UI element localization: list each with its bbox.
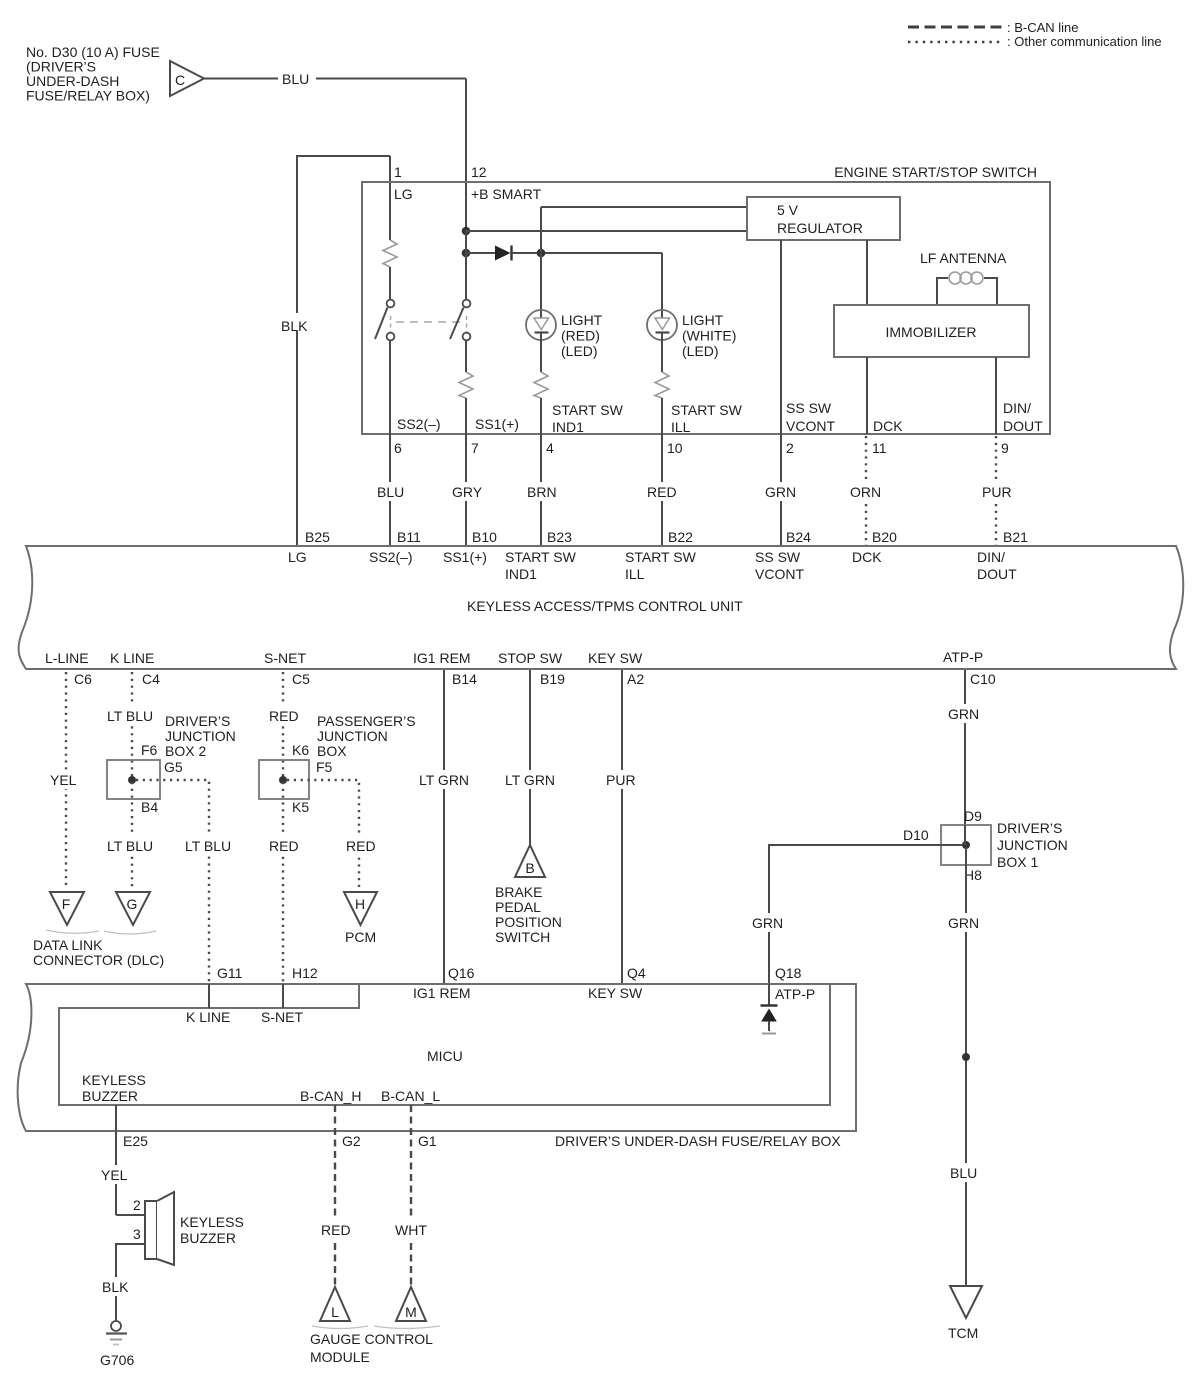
terminal G11 xyxy=(217,965,243,981)
svg-text:L-LINE: L-LINE xyxy=(45,650,89,666)
svg-text:C10: C10 xyxy=(970,671,996,687)
passenger junction box terminal F5 xyxy=(316,759,333,775)
svg-text:BRAKE: BRAKE xyxy=(495,884,542,900)
wire A2 PUR to Q4 xyxy=(602,670,640,984)
svg-text:IND1: IND1 xyxy=(552,419,584,435)
pin number 11 xyxy=(872,440,887,456)
svg-text:BUZZER: BUZZER xyxy=(180,1230,236,1246)
svg-text:DCK: DCK xyxy=(873,418,903,434)
legend other communication line sample xyxy=(908,34,1162,49)
svg-text:2: 2 xyxy=(786,440,794,456)
svg-text:DIN/: DIN/ xyxy=(977,549,1005,565)
svg-text:(RED): (RED) xyxy=(561,328,600,344)
svg-text:G: G xyxy=(127,896,138,912)
wire regulator to SS SW VCONT pin 2 xyxy=(780,240,782,434)
svg-text:DATA LINK: DATA LINK xyxy=(33,937,103,953)
resistor below LED white xyxy=(655,372,669,434)
svg-text:11: 11 xyxy=(872,440,887,456)
diode D1 xyxy=(466,246,662,261)
passenger's junction box label xyxy=(317,713,416,759)
terminal A2 xyxy=(627,671,644,687)
svg-text:9: 9 xyxy=(1001,440,1009,456)
svg-text:B: B xyxy=(525,860,534,876)
svg-text:JUNCTION: JUNCTION xyxy=(317,728,388,744)
switch box pin name SS1(+) xyxy=(475,416,519,432)
svg-text:DOUT: DOUT xyxy=(977,566,1017,582)
switch SS2 contacts and blade xyxy=(375,300,394,434)
svg-text:START SW: START SW xyxy=(671,402,743,418)
terminal B21 xyxy=(1003,529,1028,545)
fuse box pin name KEY SW xyxy=(588,985,643,1001)
svg-text:ILL: ILL xyxy=(625,566,645,582)
svg-text:KEYLESS: KEYLESS xyxy=(82,1072,146,1088)
svg-text:F5: F5 xyxy=(316,759,333,775)
pin number 7 xyxy=(471,440,479,456)
pin number 4 xyxy=(546,440,554,456)
svg-text:MICU: MICU xyxy=(427,1048,463,1064)
svg-text:K5: K5 xyxy=(292,799,309,815)
svg-text:START SW: START SW xyxy=(625,549,697,565)
terminal G1 xyxy=(418,1133,437,1149)
svg-text:2: 2 xyxy=(133,1197,141,1213)
svg-text:B22: B22 xyxy=(668,529,693,545)
band pin name DIN/DOUT xyxy=(977,549,1017,582)
fuse box pin name IG1 REM xyxy=(413,985,471,1001)
wire pin2 to B24 GRN xyxy=(761,434,801,546)
driver's junction box 2 xyxy=(107,760,160,799)
driver's junction box 1 label xyxy=(997,820,1068,870)
resistor in SS1 branch xyxy=(459,372,473,434)
switch box pin name START SW IND1 xyxy=(552,402,624,435)
svg-text:LT GRN: LT GRN xyxy=(505,772,555,788)
svg-text:Q18: Q18 xyxy=(775,965,802,981)
svg-text:DIN/: DIN/ xyxy=(1003,400,1031,416)
junction box 2 terminal F6 xyxy=(141,742,158,758)
wire LED white branch xyxy=(661,253,663,311)
MICU pin name B-CAN_L xyxy=(381,1088,440,1104)
svg-text:STOP SW: STOP SW xyxy=(498,650,563,666)
terminal B25 xyxy=(305,529,330,545)
svg-text:K LINE: K LINE xyxy=(110,650,154,666)
connector F triangle xyxy=(50,892,84,925)
band pin name DCK xyxy=(852,549,882,565)
svg-text:L: L xyxy=(331,1304,339,1320)
band pin name START SW ILL xyxy=(625,549,697,582)
svg-text:LT BLU: LT BLU xyxy=(107,838,153,854)
node +B SMART upper junction xyxy=(462,227,747,236)
svg-text:BLK: BLK xyxy=(102,1279,129,1295)
svg-text:LIGHT: LIGHT xyxy=(682,312,724,328)
svg-text:JUNCTION: JUNCTION xyxy=(165,728,236,744)
diode D2 ATP-P xyxy=(761,984,778,1034)
wire pin10 to B22 RED xyxy=(643,434,681,546)
wire pin11 to B20 ORN dotted xyxy=(846,436,886,546)
svg-text:G2: G2 xyxy=(342,1133,361,1149)
svg-text:G11: G11 xyxy=(217,965,243,981)
svg-text:BLU: BLU xyxy=(282,71,309,87)
band pin name KEY SW xyxy=(588,650,643,666)
LF antenna L1 xyxy=(920,250,1007,305)
wire buzzer pin 3 BLK to ground xyxy=(98,1244,145,1321)
engine start/stop switch box U1 xyxy=(362,164,1050,434)
wire B19 LT GRN to brake switch xyxy=(501,670,559,847)
svg-text:VCONT: VCONT xyxy=(755,566,804,582)
switch mechanical link dashed xyxy=(391,316,467,334)
wire E25 YEL to buzzer pin 2 xyxy=(97,1105,145,1215)
svg-text:G1: G1 xyxy=(418,1133,437,1149)
svg-text:RED: RED xyxy=(321,1222,351,1238)
LED white label xyxy=(682,312,736,359)
terminal B14 xyxy=(452,671,477,687)
svg-text:: B-CAN line: : B-CAN line xyxy=(1007,20,1079,35)
svg-text:(WHITE): (WHITE) xyxy=(682,328,736,344)
svg-text:GRN: GRN xyxy=(752,915,783,931)
svg-text:START SW: START SW xyxy=(505,549,577,565)
svg-text:IND1: IND1 xyxy=(505,566,537,582)
terminal E25 xyxy=(123,1133,148,1149)
wire pin4 to B23 BRN xyxy=(523,434,561,546)
svg-text:12: 12 xyxy=(471,164,487,180)
svg-text:B23: B23 xyxy=(547,529,572,545)
wire C5 RED dotted to passenger junction box xyxy=(265,672,303,778)
svg-text:DRIVER’S: DRIVER’S xyxy=(997,820,1062,836)
MICU box xyxy=(59,984,830,1105)
terminal Q4 xyxy=(627,965,646,981)
svg-text:GRN: GRN xyxy=(765,484,796,500)
junction box 1 terminal D10 xyxy=(903,827,929,843)
keyless access TPMS control unit band xyxy=(19,546,1184,669)
junction box 2 terminal G5 xyxy=(164,759,183,775)
svg-text:(LED): (LED) xyxy=(561,343,598,359)
svg-text:B24: B24 xyxy=(786,529,811,545)
svg-text:IMMOBILIZER: IMMOBILIZER xyxy=(885,324,976,340)
svg-text:Q16: Q16 xyxy=(448,965,475,981)
svg-text:F6: F6 xyxy=(141,742,158,758)
svg-text:SS SW: SS SW xyxy=(786,400,832,416)
svg-text:B19: B19 xyxy=(540,671,565,687)
pin number 2 xyxy=(786,440,794,456)
driver's under-dash fuse/relay box label xyxy=(555,1133,841,1149)
svg-text:SWITCH: SWITCH xyxy=(495,929,550,945)
band pin name L-LINE xyxy=(45,650,89,666)
svg-text:C: C xyxy=(175,72,185,88)
gauge control module label xyxy=(310,1331,433,1365)
wire H8 GRN BLU to TCM xyxy=(944,847,984,1286)
svg-text:B20: B20 xyxy=(872,529,897,545)
wire C4 LT BLU dotted to junction box xyxy=(103,672,161,778)
connector M triangle xyxy=(396,1287,426,1321)
svg-text:B21: B21 xyxy=(1003,529,1028,545)
fuse box pin name ATP-P xyxy=(775,986,815,1002)
junction box 1 terminal D9 xyxy=(964,808,982,824)
svg-text:D9: D9 xyxy=(964,808,982,824)
svg-text:10: 10 xyxy=(667,440,683,456)
wire pin9 to B21 PUR dotted xyxy=(978,436,1016,546)
switch box pin name DCK xyxy=(873,418,903,434)
svg-text:ATP-P: ATP-P xyxy=(775,986,815,1002)
svg-text:DRIVER’S: DRIVER’S xyxy=(165,713,230,729)
connector C triangle xyxy=(170,61,204,96)
svg-text:GRN: GRN xyxy=(948,915,979,931)
svg-text:G5: G5 xyxy=(164,759,183,775)
svg-text:5 V: 5 V xyxy=(777,202,799,218)
svg-text:SS SW: SS SW xyxy=(755,549,801,565)
pin number 6 xyxy=(394,440,402,456)
switch box pin name SS2(-) xyxy=(397,416,441,432)
terminal H12 xyxy=(292,965,318,981)
fuse label No. D30 xyxy=(26,44,160,104)
svg-text:YEL: YEL xyxy=(101,1167,128,1183)
svg-text:LT GRN: LT GRN xyxy=(419,772,469,788)
svg-text:SS1(+): SS1(+) xyxy=(443,549,487,565)
svg-text:GRY: GRY xyxy=(452,484,483,500)
svg-text:MODULE: MODULE xyxy=(310,1349,370,1365)
svg-text:FUSE/RELAY BOX): FUSE/RELAY BOX) xyxy=(26,88,150,104)
wire S-NET stub xyxy=(261,984,303,1025)
wire F5 RED dotted to PCM H xyxy=(287,780,380,888)
svg-text:LT BLU: LT BLU xyxy=(185,838,231,854)
keyless buzzer label xyxy=(180,1214,244,1246)
svg-text:S-NET: S-NET xyxy=(264,650,306,666)
wire immobilizer DIN/DOUT to pin 9 xyxy=(995,357,997,434)
wire G5 LT BLU dotted to G11 xyxy=(136,780,239,982)
svg-text:BOX 2: BOX 2 xyxy=(165,743,206,759)
svg-text:JUNCTION: JUNCTION xyxy=(997,837,1068,853)
svg-text:GAUGE CONTROL: GAUGE CONTROL xyxy=(310,1331,433,1347)
switch box pin name DIN/DOUT xyxy=(1003,400,1043,434)
svg-text:START SW: START SW xyxy=(552,402,624,418)
PCM label xyxy=(345,929,376,945)
svg-text:K LINE: K LINE xyxy=(186,1009,230,1025)
svg-text:B14: B14 xyxy=(452,671,477,687)
svg-text:BOX 1: BOX 1 xyxy=(997,854,1038,870)
connector G triangle xyxy=(116,892,150,925)
svg-text:E25: E25 xyxy=(123,1133,148,1149)
connector TCM triangle xyxy=(948,1286,982,1341)
svg-text:ENGINE START/STOP SWITCH: ENGINE START/STOP SWITCH xyxy=(834,164,1037,180)
wire C6 YEL dotted to DLC F xyxy=(46,672,83,888)
svg-text:PASSENGER’S: PASSENGER’S xyxy=(317,713,416,729)
buzzer pin number 3 xyxy=(133,1226,141,1242)
terminal B20 xyxy=(872,529,897,545)
svg-text:RED: RED xyxy=(269,838,299,854)
svg-text:VCONT: VCONT xyxy=(786,418,835,434)
svg-text:BLU: BLU xyxy=(950,1165,977,1181)
svg-text:BOX: BOX xyxy=(317,743,347,759)
junction box 2 terminal B4 xyxy=(141,799,158,815)
svg-text:RED: RED xyxy=(647,484,677,500)
svg-text:3: 3 xyxy=(133,1226,141,1242)
svg-text:PUR: PUR xyxy=(982,484,1012,500)
band pin name SS SW VCONT xyxy=(755,549,804,582)
band pin name K LINE xyxy=(110,650,154,666)
svg-text:CONNECTOR (DLC): CONNECTOR (DLC) xyxy=(33,952,164,968)
ground G706 xyxy=(100,1321,134,1368)
switch SS1 contacts and blade xyxy=(450,300,470,372)
svg-text:KEYLESS: KEYLESS xyxy=(180,1214,244,1230)
LED red indicator xyxy=(526,310,556,372)
svg-text:KEY SW: KEY SW xyxy=(588,985,643,1001)
wire B4 LT BLU dotted to DLC G xyxy=(103,782,161,888)
svg-text:GRN: GRN xyxy=(948,706,979,722)
terminal G2 xyxy=(342,1133,361,1149)
passenger's junction box xyxy=(259,760,309,799)
connector H triangle xyxy=(344,892,377,925)
svg-text:SS1(+): SS1(+) xyxy=(475,416,519,432)
svg-text:Q4: Q4 xyxy=(627,965,646,981)
svg-text:K6: K6 xyxy=(292,742,309,758)
terminal C4 xyxy=(142,671,160,687)
svg-text:F: F xyxy=(62,896,71,912)
svg-text:S-NET: S-NET xyxy=(261,1009,303,1025)
svg-text:C6: C6 xyxy=(74,671,92,687)
svg-text:SS2(–): SS2(–) xyxy=(397,416,441,432)
svg-text:SS2(–): SS2(–) xyxy=(369,549,413,565)
DLC bracket xyxy=(46,930,156,934)
wire regulator to immobilizer DCK xyxy=(866,240,868,305)
svg-text:PCM: PCM xyxy=(345,929,376,945)
driver's under-dash fuse/relay box band xyxy=(18,984,856,1131)
LED red label xyxy=(561,312,603,359)
connector L triangle xyxy=(320,1287,350,1321)
band pin name START SW IND1 xyxy=(505,549,577,582)
driver's junction box 2 label xyxy=(165,713,236,759)
svg-text:LIGHT: LIGHT xyxy=(561,312,603,328)
keyless buzzer speaker xyxy=(145,1192,174,1265)
svg-text:POSITION: POSITION xyxy=(495,914,562,930)
svg-text:BRN: BRN xyxy=(527,484,557,500)
terminal C10 xyxy=(970,671,996,687)
svg-text:LG: LG xyxy=(288,549,307,565)
wire pin7 to B10 GRY xyxy=(448,434,486,546)
svg-text:B-CAN_H: B-CAN_H xyxy=(300,1088,361,1104)
pin number 9 xyxy=(1001,440,1009,456)
svg-text:LT BLU: LT BLU xyxy=(107,708,153,724)
svg-text:+B SMART: +B SMART xyxy=(471,186,542,202)
terminal C6 xyxy=(74,671,92,687)
svg-text:KEYLESS ACCESS/TPMS CONTROL UN: KEYLESS ACCESS/TPMS CONTROL UNIT xyxy=(467,598,743,614)
terminal B24 xyxy=(786,529,811,545)
resistor below LED red xyxy=(534,372,548,434)
junction box 1 terminal H8 xyxy=(964,867,982,883)
svg-text:H12: H12 xyxy=(292,965,318,981)
svg-text:C4: C4 xyxy=(142,671,160,687)
svg-text:: Other communication line: : Other communication line xyxy=(1007,34,1162,49)
switch box pin name START SW ILL xyxy=(671,402,743,435)
pin 12 label +B SMART xyxy=(471,164,542,202)
svg-text:IG1 REM: IG1 REM xyxy=(413,985,471,1001)
terminal B10 xyxy=(472,529,497,545)
terminal B22 xyxy=(668,529,693,545)
band pin name LG xyxy=(288,549,307,565)
node +B SMART lower junction and wire to switch SS1 xyxy=(462,231,471,299)
legend B-CAN line sample xyxy=(908,20,1079,35)
svg-text:BLU: BLU xyxy=(377,484,404,500)
pin 1 label LG xyxy=(394,164,413,202)
svg-text:BUZZER: BUZZER xyxy=(82,1088,138,1104)
svg-text:A2: A2 xyxy=(627,671,644,687)
svg-text:PUR: PUR xyxy=(606,772,636,788)
terminal Q16 xyxy=(448,965,475,981)
terminal B19 xyxy=(540,671,565,687)
terminal B11 xyxy=(397,529,421,545)
svg-text:B10: B10 xyxy=(472,529,497,545)
svg-text:B11: B11 xyxy=(397,529,421,545)
passenger junction box terminal K5 xyxy=(292,799,309,815)
node LED red branch junction xyxy=(537,249,546,258)
wire BLU from fuse to +B SMART xyxy=(204,66,466,234)
pin number 10 xyxy=(667,440,683,456)
svg-text:C5: C5 xyxy=(292,671,310,687)
band pin name S-NET xyxy=(264,650,306,666)
buzzer pin number 2 xyxy=(133,1197,141,1213)
driver's junction box 1 xyxy=(941,825,991,865)
wire BLK from pin1 to B25 xyxy=(277,156,390,546)
svg-text:ORN: ORN xyxy=(850,484,881,500)
svg-text:LG: LG xyxy=(394,186,413,202)
svg-text:RED: RED xyxy=(346,838,376,854)
MICU pin name B-CAN_H xyxy=(300,1088,361,1104)
passenger junction box terminal K6 xyxy=(292,742,309,758)
terminal C5 xyxy=(292,671,310,687)
brake pedal position switch connector B xyxy=(515,845,545,877)
wire K5 RED dotted to H12 xyxy=(265,782,303,982)
svg-text:YEL: YEL xyxy=(50,772,77,788)
svg-text:RED: RED xyxy=(269,708,299,724)
terminal B23 xyxy=(547,529,572,545)
svg-text:4: 4 xyxy=(546,440,554,456)
5V regulator U2 xyxy=(747,197,900,240)
resistor in SS2 branch xyxy=(383,183,397,299)
svg-text:D10: D10 xyxy=(903,827,929,843)
svg-text:1: 1 xyxy=(394,164,402,180)
svg-text:WHT: WHT xyxy=(395,1222,427,1238)
svg-text:DOUT: DOUT xyxy=(1003,418,1043,434)
splice node on TCM wire xyxy=(962,1053,970,1061)
svg-text:PEDAL: PEDAL xyxy=(495,899,541,915)
svg-text:6: 6 xyxy=(394,440,402,456)
brake pedal position switch label xyxy=(495,884,562,945)
svg-text:7: 7 xyxy=(471,440,479,456)
svg-text:TCM: TCM xyxy=(948,1325,978,1341)
svg-text:ILL: ILL xyxy=(671,419,691,435)
svg-text:B25: B25 xyxy=(305,529,330,545)
band pin name STOP SW xyxy=(498,650,563,666)
gauge bracket xyxy=(312,1326,440,1329)
svg-text:B4: B4 xyxy=(141,799,158,815)
wire LED red branch to regulator xyxy=(541,207,747,311)
band pin name ATP-P xyxy=(943,649,983,665)
svg-text:DRIVER’S UNDER-DASH FUSE/RELAY: DRIVER’S UNDER-DASH FUSE/RELAY BOX xyxy=(555,1133,841,1149)
svg-text:BLK: BLK xyxy=(281,318,308,334)
wire K LINE stub xyxy=(186,984,230,1025)
switch box pin name SS SW VCONT xyxy=(786,400,835,434)
svg-text:ATP-P: ATP-P xyxy=(943,649,983,665)
band pin name SS1(+) xyxy=(443,549,487,565)
svg-text:H: H xyxy=(355,896,365,912)
data link connector label xyxy=(33,937,164,968)
svg-text:IG1 REM: IG1 REM xyxy=(413,650,471,666)
wire G2 RED B-CAN dashed to gauge L xyxy=(317,1105,355,1287)
wire C10 GRN to junction box 1 xyxy=(944,670,984,825)
band pin name SS2(-) xyxy=(369,549,413,565)
svg-text:(LED): (LED) xyxy=(682,343,719,359)
wire G1 WHT B-CAN dashed to gauge M xyxy=(391,1105,433,1287)
band pin name IG1 REM xyxy=(413,650,471,666)
wire D10 GRN to Q18 xyxy=(748,845,963,984)
svg-text:DCK: DCK xyxy=(852,549,882,565)
wire pin6 to B11 BLU xyxy=(373,434,409,546)
